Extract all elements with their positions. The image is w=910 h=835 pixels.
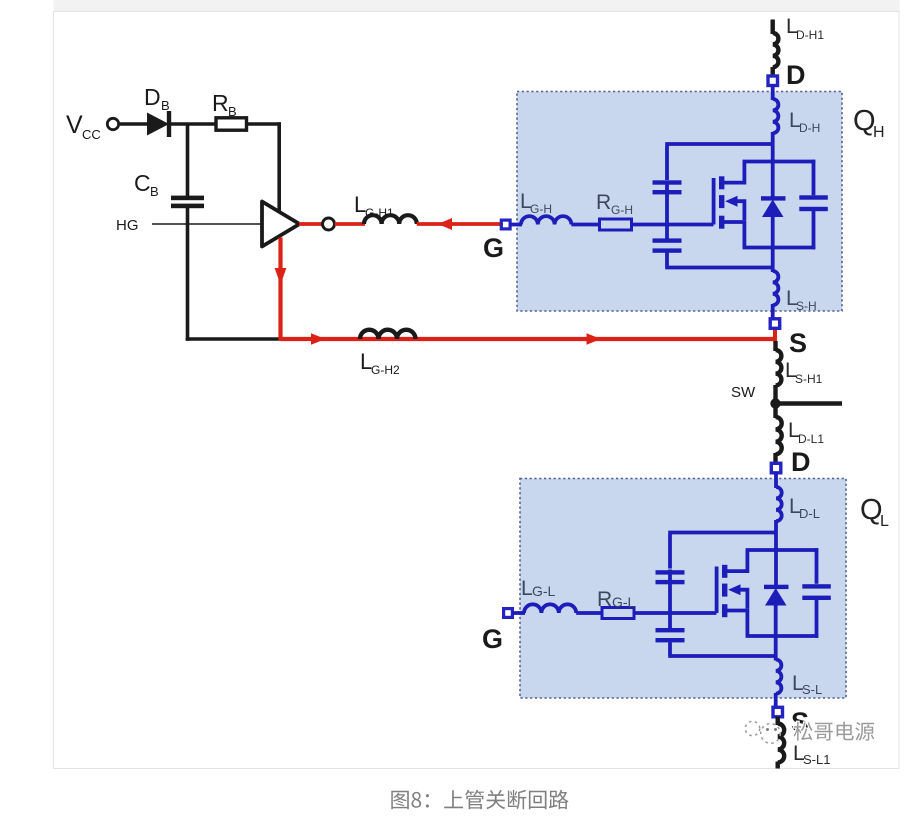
transistor QL channel dashes (722, 565, 727, 617)
svg-text:G-H: G-H (530, 202, 552, 216)
wire red vertical from buffer (278, 238, 282, 341)
inductor LGH1 (364, 215, 417, 224)
box QL region (520, 479, 846, 699)
svg-text:D-L1: D-L1 (798, 432, 824, 446)
wire corner down to buffer top (277, 122, 281, 214)
wire junction down to CB (186, 124, 190, 196)
wire red apex to bubble (299, 222, 323, 226)
wire gate line RGL to mosfet (634, 611, 717, 615)
wire G square to LGL (512, 611, 525, 615)
resistor RGH (600, 219, 632, 230)
resistor RB (216, 118, 247, 130)
capacitor CB (171, 196, 204, 209)
wire bottom rail CGS QL (668, 614, 776, 656)
wire SW branch right (776, 401, 843, 406)
wire LDL1 to D square (773, 453, 777, 463)
svg-text:R: R (212, 90, 229, 116)
svg-text:H: H (873, 124, 885, 141)
arrow red down (275, 268, 287, 285)
svg-text:D-L: D-L (799, 506, 820, 521)
svg-text:B: B (161, 98, 170, 113)
svg-text:B: B (228, 104, 237, 119)
wire gate line RGH to mosfet (632, 223, 714, 227)
label LDL (789, 495, 820, 521)
buffer U1 (262, 202, 300, 247)
label RB (212, 90, 237, 119)
svg-text:S-L1: S-L1 (803, 752, 830, 767)
buffer U1 output bubble (323, 218, 335, 230)
wire LSL to S square QL (774, 693, 778, 708)
wire bottom rail CGS (665, 226, 773, 268)
wire bottom horizontal black (186, 337, 282, 341)
transistor QH source stub (723, 222, 744, 248)
svg-text:D-H1: D-H1 (796, 28, 824, 42)
wire SW down (773, 404, 777, 419)
svg-text:G-H1: G-H1 (365, 206, 394, 220)
junction SW dot (770, 398, 780, 408)
label LDL1 (788, 419, 824, 446)
caption (391, 790, 568, 810)
label LSH (786, 287, 817, 313)
inductor LSL1 (778, 724, 785, 763)
wire drain vertical QL (774, 520, 778, 586)
label LSL1 (793, 742, 830, 767)
arrow red left (438, 218, 452, 230)
diode DB (147, 111, 171, 137)
terminal VCC circle (107, 118, 118, 129)
wire inner top rail QH (743, 160, 816, 164)
transistor QL body stub arrow (728, 584, 747, 608)
svg-text:D: D (144, 84, 161, 110)
inductor LDL1 (776, 417, 782, 454)
wire CB down (186, 208, 190, 341)
wire LGL to RGL (576, 611, 603, 615)
watermark text (794, 722, 875, 741)
wire DB to RB (171, 122, 215, 126)
label CB (134, 170, 159, 199)
wire G square to LGH (510, 223, 522, 227)
wire HG input thin (152, 223, 262, 225)
wire LSH to S square (771, 304, 775, 319)
svg-text:R: R (597, 588, 612, 611)
label DB (144, 84, 170, 113)
wire RB to corner (247, 122, 282, 126)
terminal S square QL (773, 707, 783, 717)
inductor LGH2 (360, 330, 416, 339)
svg-text:S: S (789, 328, 807, 358)
inductor LSH (773, 271, 779, 305)
svg-text:D: D (791, 447, 811, 477)
transistor QL source stub (726, 611, 747, 637)
label RGH (596, 191, 633, 217)
label LGH1 (354, 192, 394, 220)
label LDH (789, 109, 820, 135)
svg-text:L: L (880, 513, 889, 530)
transistor QL drain stub (726, 550, 747, 571)
svg-text:CC: CC (82, 127, 101, 142)
svg-text:C: C (134, 170, 151, 196)
svg-text:L: L (521, 577, 533, 600)
wire inner top rail QL (746, 548, 819, 552)
terminal D square QL (771, 463, 781, 473)
wire LGH to RGH (571, 223, 600, 227)
svg-text:G-L: G-L (532, 583, 556, 599)
label LGH2 (360, 349, 400, 377)
label LDH1 (786, 15, 824, 42)
wire D into box (771, 85, 775, 100)
svg-text:G-H: G-H (611, 203, 633, 217)
svg-text:D: D (786, 60, 806, 90)
capacitor CGD QH (653, 180, 682, 194)
inductor LDH1 black top (773, 20, 779, 76)
inductor LDH (773, 99, 779, 133)
wire red LGH1 to G square (417, 222, 500, 226)
label LGL (521, 577, 556, 600)
svg-text:G-H2: G-H2 (371, 363, 400, 377)
terminal D square QH (768, 76, 778, 86)
svg-text:SW: SW (731, 384, 756, 401)
watermark icon (745, 721, 780, 743)
wire red bottom horizontal to S (281, 337, 777, 341)
svg-text:G: G (483, 233, 504, 263)
inductor LGH (521, 216, 571, 224)
terminal G square QL (504, 609, 513, 618)
capacitor CGD QL (656, 570, 685, 584)
diode body QH (761, 196, 786, 217)
wire LSL1 to bottom edge (776, 762, 780, 769)
wire top rail CGD QL (668, 533, 776, 615)
svg-text:G-L: G-L (612, 594, 636, 610)
wire D into box QL (774, 472, 778, 488)
inductor LDL (776, 487, 782, 521)
wire red bubble to LGH1 (335, 222, 365, 226)
inductor LSH1 (776, 350, 782, 385)
wire S down black (773, 341, 777, 351)
arrow red right 2 (587, 333, 602, 345)
capacitor CGS QH (653, 238, 682, 252)
label LSH1 (785, 359, 823, 386)
wire inner bottom rail QL (746, 634, 819, 638)
svg-text:D-H: D-H (799, 121, 820, 135)
wire S down black QL (776, 717, 780, 726)
node VCC (66, 111, 101, 142)
label QL (860, 494, 889, 530)
wire red corner up to S terminal (773, 326, 777, 341)
arrow red right 1 (311, 333, 326, 345)
inductor LSL (776, 660, 782, 694)
wire LSH1 to SW node (773, 385, 777, 404)
svg-text:B: B (150, 184, 159, 199)
wire VCC to DB (120, 122, 148, 126)
label RGL (597, 588, 636, 611)
resistor RGL (602, 608, 634, 619)
wire drain vertical QH (771, 132, 775, 198)
label QH (853, 105, 885, 141)
wire diode to source QH (771, 215, 775, 272)
capacitor CDS QH (799, 160, 828, 250)
svg-text:R: R (596, 191, 611, 214)
box QH region (517, 92, 842, 312)
capacitor CDS QL (802, 548, 831, 638)
terminal G square QH (501, 220, 510, 229)
label LSL (792, 672, 822, 697)
inductor LGL (524, 604, 576, 613)
transistor QH gate bar (712, 178, 716, 225)
transistor QH drain stub (723, 162, 744, 183)
transistor QH body stub arrow (725, 196, 744, 220)
diode body QL (764, 585, 789, 606)
svg-text:V: V (66, 111, 83, 139)
svg-text:S-H: S-H (796, 299, 817, 313)
svg-text:HG: HG (116, 217, 139, 234)
transistor QH channel dashes (719, 176, 724, 228)
svg-text:G: G (482, 624, 503, 654)
svg-text:S-H1: S-H1 (795, 372, 823, 386)
svg-text:S-L: S-L (802, 682, 822, 697)
capacitor CGS QL (656, 628, 685, 642)
terminal S square QH (770, 319, 780, 329)
label LGH (520, 190, 552, 216)
wire diode to source QL (774, 603, 778, 661)
transistor QL gate bar (715, 567, 719, 614)
wire inner bottom rail QH (743, 246, 816, 250)
wire top rail CGD (665, 144, 773, 226)
